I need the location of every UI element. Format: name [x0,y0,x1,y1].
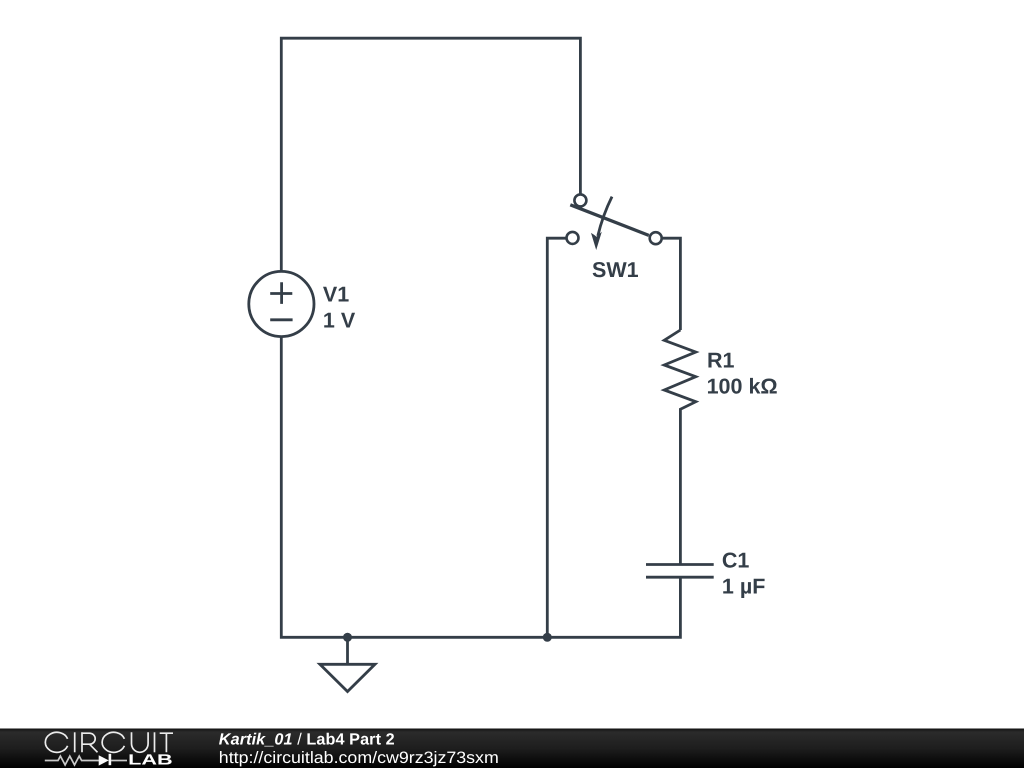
switch SW1 arrowhead [591,232,602,250]
wire top loop: V1 top to switch common [281,38,580,272]
logo diode cathode bar [109,754,112,765]
wire: V1 bottom to bottom rail to C1 bottom [281,336,680,637]
capacitor C1 top plate [646,563,714,566]
logo diode [99,755,109,765]
switch SW1 left throw terminal circle [567,232,579,244]
switch SW1 motion arc [598,197,612,236]
logo resistor squiggle [45,756,99,765]
svg-text:SW1: SW1 [592,258,639,282]
voltage source V1 circle [249,271,314,336]
ground triangle [320,664,375,691]
letter U [132,732,149,752]
capacitor C1 bottom plate [646,576,714,579]
V1 plus sign [270,282,292,304]
svg-text:100 kΩ: 100 kΩ [707,375,778,399]
ground stub [346,637,349,664]
logo wire to LAB [111,760,127,762]
V1 minus sign [270,318,292,321]
svg-text:1 V: 1 V [323,309,356,333]
letter I [74,732,76,752]
svg-text:R1: R1 [707,349,735,373]
junction dot at ground node [343,633,352,642]
svg-text:V1: V1 [323,283,349,307]
letter I [154,732,156,752]
resistor R1 zigzag [664,330,696,565]
switch SW1 blade [570,205,649,236]
svg-text:http://circuitlab.com/cw9rz3jz: http://circuitlab.com/cw9rz3jz73sxm [219,749,499,767]
wire: switch right throw to R1 top lead [662,238,680,330]
footer bar [0,729,1024,768]
letter C [45,732,67,752]
letter R [81,732,97,752]
letter T [160,733,173,752]
junction dot at left throw branch [543,633,552,642]
svg-text:1 µF: 1 µF [722,575,765,599]
letter C [102,732,124,752]
switch SW1 right throw terminal circle [650,232,662,244]
svg-text:C1: C1 [722,549,750,573]
wire: switch left throw branch down to bottom rail [547,238,566,637]
CircuitLab logo CIRCUIT letters [45,732,173,752]
switch SW1 common terminal circle [574,194,586,206]
svg-text:Kartik_01 / Lab4 Part 2: Kartik_01 / Lab4 Part 2 [219,731,395,749]
svg-text:LAB: LAB [128,753,173,768]
